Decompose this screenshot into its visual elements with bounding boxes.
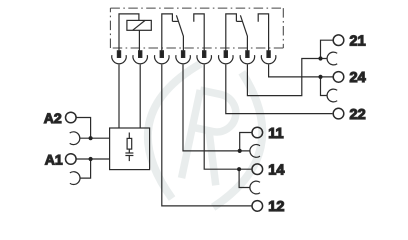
terminal t2 pin <box>139 51 142 58</box>
svg-text:22: 22 <box>350 107 366 123</box>
terminal t6 pin <box>224 51 227 58</box>
relay coil K1 <box>119 14 151 51</box>
svg-text:24: 24 <box>350 70 366 86</box>
terminal t8 cup <box>261 55 276 64</box>
svg-text:A2: A2 <box>44 110 62 126</box>
pole 1 NO fixed contact (terminal t5) <box>194 14 204 51</box>
wire coil bottom lead to terminal t2 <box>138 30 140 50</box>
svg-text:A1: A1 <box>45 151 63 167</box>
coil diagonal <box>133 20 146 30</box>
module boundary (dash-dot) <box>110 8 283 48</box>
terminal t7 pin <box>246 51 249 58</box>
terminal t3 pin <box>160 51 163 58</box>
wire 21 bracket <box>321 40 334 58</box>
terminal 14 circle <box>252 164 263 175</box>
node A2 junction <box>89 136 93 140</box>
node 24 junction <box>318 75 322 79</box>
pole 2 NO fixed contact (terminal t8) <box>258 14 268 51</box>
terminal 24 circle <box>333 72 344 83</box>
wire t2 to suppressor box <box>139 64 141 128</box>
terminal 21 socket <box>327 52 337 65</box>
suppressor box <box>110 128 150 170</box>
terminal A2 socket <box>70 132 80 145</box>
node 14 junction <box>237 167 241 171</box>
terminal A1 circle <box>66 154 77 165</box>
svg-text:14: 14 <box>268 163 284 179</box>
terminal t7 cup <box>240 55 255 64</box>
capacitor inside suppressor <box>125 149 133 161</box>
terminal t1 cup <box>112 55 127 64</box>
terminal t2 cup <box>133 55 148 64</box>
terminal A2 circle <box>66 112 77 123</box>
wire t3 to terminal 12 <box>162 64 252 206</box>
terminal t5 pin <box>203 51 206 58</box>
wire t4 to node 11 <box>183 64 240 150</box>
resistor inside suppressor <box>127 133 132 150</box>
pole 2 NC fixed contact (terminal t6) <box>226 14 242 51</box>
pole 1 NC fixed contact (terminal t3) <box>162 14 178 51</box>
wire t8 to node 24 <box>269 64 321 77</box>
wire t1 to suppressor box <box>118 64 120 128</box>
wire A1 to suppressor box <box>76 159 110 178</box>
wire 14 bracket <box>239 169 252 187</box>
wire t5 to node 14 <box>204 64 239 169</box>
wire A2 to suppressor box <box>76 118 110 139</box>
pole 2 contact arm (terminal t7) <box>240 15 247 50</box>
node 21 junction <box>318 56 322 60</box>
watermark logo <box>135 56 275 215</box>
wire coil left lead from terminal t1 <box>119 14 139 51</box>
terminal t4 pin <box>182 51 185 58</box>
terminal t1 pin <box>117 51 120 58</box>
terminal 22 circle <box>333 108 344 119</box>
wire t6 to terminal 22 <box>226 64 333 113</box>
terminal 12 circle <box>252 201 263 212</box>
wire 11 bracket <box>240 133 252 151</box>
terminal t8 pin <box>267 51 270 58</box>
svg-text:12: 12 <box>268 199 284 215</box>
svg-text:11: 11 <box>268 126 283 142</box>
terminal t6 cup <box>219 55 234 64</box>
terminal 14 socket <box>250 181 260 194</box>
pole 1 contact arm (terminal t4) <box>176 15 183 50</box>
wire t7 to node 21 <box>247 59 320 96</box>
node 11 junction <box>238 149 242 153</box>
terminal 24 socket <box>327 89 337 102</box>
coil body <box>127 20 151 30</box>
terminal t4 cup <box>176 55 191 64</box>
node A1 junction <box>89 157 93 161</box>
terminal t3 cup <box>155 55 170 64</box>
svg-text:21: 21 <box>350 34 366 50</box>
terminal t5 cup <box>197 55 212 64</box>
terminal 11 socket <box>250 145 260 158</box>
terminal 11 circle <box>252 127 263 138</box>
terminal A1 socket <box>70 172 80 185</box>
terminal 21 circle <box>333 35 344 46</box>
wire 24 bracket <box>321 77 334 96</box>
